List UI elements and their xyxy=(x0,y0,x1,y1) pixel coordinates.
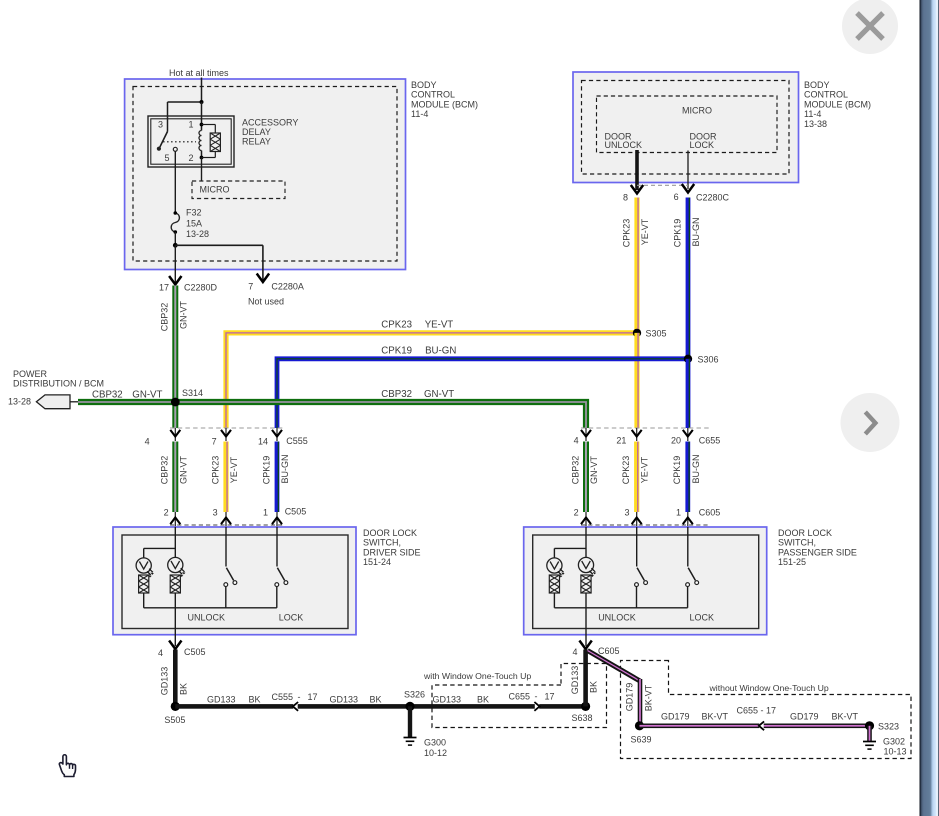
connector C555 pin 7 xyxy=(212,428,231,447)
wire S323 to ground xyxy=(867,726,872,741)
svg-text:CONTROL: CONTROL xyxy=(804,90,848,100)
svg-text:C605: C605 xyxy=(598,646,620,656)
resistor lamp 2 xyxy=(170,575,180,646)
svg-text:21: 21 xyxy=(616,436,626,446)
svg-text:BK: BK xyxy=(589,681,599,693)
node S323 xyxy=(865,721,899,731)
next button xyxy=(841,393,900,452)
wire to C2280D exit xyxy=(174,245,176,283)
svg-text:SWITCH,: SWITCH, xyxy=(778,538,816,548)
svg-text:2: 2 xyxy=(188,153,193,163)
connector C605 dashed line xyxy=(581,524,710,526)
lamp indicator 2 xyxy=(168,527,186,577)
svg-text:17: 17 xyxy=(159,283,169,293)
svg-text:UNLOCK: UNLOCK xyxy=(598,613,636,623)
svg-text:S314: S314 xyxy=(182,388,203,398)
node S639 xyxy=(631,721,652,744)
svg-text:3: 3 xyxy=(624,508,629,518)
label GD133 BK segment 3 xyxy=(433,695,490,705)
connector C2280A pin 7 xyxy=(248,274,304,292)
svg-text:10-12: 10-12 xyxy=(424,748,447,758)
label CPK19 BU-GN horizontal xyxy=(381,345,456,356)
svg-text:CPK19: CPK19 xyxy=(261,456,271,485)
svg-text:1: 1 xyxy=(188,120,193,130)
svg-text:13-28: 13-28 xyxy=(186,229,209,239)
wire CBP32 GN-VT passenger mid xyxy=(583,442,589,513)
BCM2 dashed border xyxy=(582,81,790,175)
svg-text:CBP32: CBP32 xyxy=(381,389,412,400)
svg-text:4: 4 xyxy=(574,436,579,446)
svg-text:4: 4 xyxy=(145,437,150,447)
connector C555 dashed line xyxy=(170,427,283,429)
connector C655 - 17 inline black xyxy=(509,691,555,711)
svg-text:YE-VT: YE-VT xyxy=(640,456,650,483)
svg-text:G300: G300 xyxy=(424,738,446,748)
label Hot at all times xyxy=(169,68,229,78)
wire GD133 BK driver down xyxy=(173,650,178,707)
resistor lamp 2 xyxy=(581,575,591,646)
wire CBP32 GN-VT vertical driver from C2280D xyxy=(172,286,178,429)
svg-text:151-25: 151-25 xyxy=(778,557,806,567)
label CPK23 YE-VT driver mid xyxy=(210,456,239,485)
door lock switch module box xyxy=(113,527,356,635)
connector C2280C dashed line xyxy=(637,184,688,186)
svg-text:11-4: 11-4 xyxy=(804,109,821,119)
svg-text:S639: S639 xyxy=(631,735,652,745)
svg-text:LOCK: LOCK xyxy=(279,613,304,623)
wire CPK23 YE-VT passenger mid xyxy=(634,442,639,513)
svg-text:GD133: GD133 xyxy=(570,666,580,695)
connector C605 pin 4 exit xyxy=(572,641,619,658)
wire CPK23 YE-VT from BCM to S305 xyxy=(634,198,639,332)
relay coil xyxy=(199,102,203,159)
label 13-28 xyxy=(8,397,31,407)
lamp indicator 2 xyxy=(578,527,596,577)
svg-text:BK-VT: BK-VT xyxy=(702,712,729,722)
svg-text:BK: BK xyxy=(370,695,382,705)
label C505 xyxy=(285,507,307,517)
node S306 xyxy=(684,354,719,364)
svg-text:MICRO: MICRO xyxy=(200,185,230,195)
connector C655 - 17 inline violet xyxy=(737,706,777,731)
svg-text:GN-VT: GN-VT xyxy=(178,456,188,485)
svg-text:LOCK: LOCK xyxy=(690,140,715,150)
relay switch contact pin 3-5 xyxy=(157,132,196,152)
BCM2 micro dashed box xyxy=(597,96,778,153)
label CBP32 GN-VT driver mid xyxy=(160,456,189,485)
connector C555 - 17 inline xyxy=(272,692,318,711)
svg-text:C605: C605 xyxy=(699,508,721,518)
svg-text:C555: C555 xyxy=(286,436,308,446)
svg-text:CPK23: CPK23 xyxy=(381,319,412,330)
svg-text:CBP32: CBP32 xyxy=(92,389,123,400)
svg-text:with Window One-Touch Up: with Window One-Touch Up xyxy=(423,671,531,681)
scrollbar xyxy=(920,0,939,816)
label door lock switch title xyxy=(363,528,421,567)
svg-text:BK: BK xyxy=(249,695,261,705)
svg-text:GN-VT: GN-VT xyxy=(178,301,188,330)
wire door lock output xyxy=(687,151,689,190)
svg-text:POWER: POWER xyxy=(13,369,48,379)
lamp indicator 1 xyxy=(547,548,586,577)
svg-text:6: 6 xyxy=(674,192,679,202)
close button xyxy=(842,0,898,54)
svg-text:DRIVER SIDE: DRIVER SIDE xyxy=(363,547,421,557)
wire CPK19 BU-GN S306 down xyxy=(686,359,691,428)
connector C505 pin 1 xyxy=(263,508,282,527)
connector C2280D pin 17 xyxy=(159,276,218,293)
connector C605 pin 3 xyxy=(624,508,641,528)
switch common rail xyxy=(144,607,277,609)
svg-text:4: 4 xyxy=(572,647,577,657)
connector C655 pin 20 xyxy=(671,428,693,446)
connector C2280C pin 6 xyxy=(674,184,730,203)
hand cursor xyxy=(59,755,75,777)
svg-text:13-38: 13-38 xyxy=(804,119,827,129)
svg-text:BODY: BODY xyxy=(411,80,437,90)
svg-text:Hot at all times: Hot at all times xyxy=(169,68,229,78)
svg-text:BU-GN: BU-GN xyxy=(691,218,701,247)
svg-text:RELAY: RELAY xyxy=(242,137,271,147)
connector C505 pin 4 exit xyxy=(158,641,206,659)
svg-text:BK-VT: BK-VT xyxy=(832,712,859,722)
label CPK19 BU-GN driver mid xyxy=(261,455,290,485)
label CBP32 GN-VT left xyxy=(92,389,163,400)
svg-text:3: 3 xyxy=(213,508,218,518)
svg-text:BK-VT: BK-VT xyxy=(644,684,654,711)
svg-text:C655: C655 xyxy=(699,436,721,446)
svg-text:BU-GN: BU-GN xyxy=(425,345,456,356)
lamp indicator 1 xyxy=(136,548,175,577)
svg-text:ACCESSORY: ACCESSORY xyxy=(242,118,298,128)
wire GD133 BK passenger down xyxy=(583,650,588,707)
wire door unlock output xyxy=(635,150,639,190)
label CPK23 YE-VT horizontal xyxy=(381,319,453,330)
node S305 xyxy=(633,329,667,339)
unlock switch xyxy=(635,527,648,608)
connector C2280C pin 8 xyxy=(623,185,643,203)
BCM module box (driver) xyxy=(125,79,406,270)
label ACCESSORY DELAY RELAY xyxy=(242,118,298,147)
door lock switch inner border xyxy=(122,535,348,629)
svg-text:GD133: GD133 xyxy=(330,695,359,705)
svg-text:CBP32: CBP32 xyxy=(160,303,170,332)
svg-text:SWITCH,: SWITCH, xyxy=(363,538,401,548)
fuse F32 xyxy=(171,211,179,234)
svg-text:15A: 15A xyxy=(186,219,202,229)
wire CBP32 GN-VT driver mid xyxy=(172,442,178,513)
wire branch to C2280A xyxy=(175,245,263,280)
svg-text:DOOR LOCK: DOOR LOCK xyxy=(778,528,832,538)
label GD179 BK-VT segment 1 xyxy=(661,712,729,722)
label UNLOCK xyxy=(188,613,226,623)
svg-text:GN-VT: GN-VT xyxy=(589,456,599,485)
svg-text:1: 1 xyxy=(676,508,681,518)
svg-text:S505: S505 xyxy=(164,715,185,725)
label GD133 BK segment 2 xyxy=(330,695,382,705)
svg-text:C505: C505 xyxy=(285,507,307,517)
svg-text:CPK19: CPK19 xyxy=(381,345,412,356)
svg-text:GD179: GD179 xyxy=(661,712,690,722)
lock switch xyxy=(275,527,288,608)
svg-text:YE-VT: YE-VT xyxy=(229,456,239,483)
svg-text:GN-VT: GN-VT xyxy=(132,389,162,400)
label DOOR LOCK xyxy=(690,132,718,151)
svg-text:S638: S638 xyxy=(572,713,593,723)
svg-text:4: 4 xyxy=(158,648,163,658)
connector C605 pin 2 xyxy=(574,508,591,528)
svg-text:CBP32: CBP32 xyxy=(570,456,580,485)
svg-text:without Window One-Touch Up: without Window One-Touch Up xyxy=(709,683,829,693)
svg-text:5: 5 xyxy=(164,153,169,163)
svg-text:151-24: 151-24 xyxy=(363,557,391,567)
power distribution flag symbol xyxy=(36,395,78,409)
node S326 xyxy=(404,690,425,712)
svg-text:10-13: 10-13 xyxy=(884,747,907,757)
node S638 xyxy=(572,702,593,723)
resistor relay suppression xyxy=(202,125,221,158)
connector C505 pin 2 xyxy=(164,508,181,527)
svg-text:BK: BK xyxy=(477,695,489,705)
BCM dashed border xyxy=(133,87,397,262)
label C605 xyxy=(699,508,721,518)
wire CBP32 GN-VT horizontal xyxy=(78,402,586,428)
wire GD179 BK-VT diagonal xyxy=(588,651,643,725)
wire CPK19 BU-GN passenger mid xyxy=(685,442,690,513)
wire pin 5 to fuse xyxy=(174,151,176,213)
svg-text:MICRO: MICRO xyxy=(682,106,712,116)
wire CPK23 YE-VT horizontal xyxy=(226,333,637,428)
BCM module box (passenger) xyxy=(573,72,799,183)
svg-text:C655 - 17: C655 - 17 xyxy=(737,706,777,716)
svg-text:PASSENGER SIDE: PASSENGER SIDE xyxy=(778,547,857,557)
lock switch xyxy=(686,527,699,608)
connector C605 pin 1 xyxy=(676,508,693,528)
connector C655 pin 4 xyxy=(574,428,591,446)
label POWER DISTRIBUTION / BCM xyxy=(13,369,104,389)
svg-text:7: 7 xyxy=(248,282,253,292)
wire GD179 BK-VT horizontal xyxy=(640,724,870,729)
svg-text:BK: BK xyxy=(178,683,188,695)
label with Window One-Touch Up xyxy=(423,671,531,681)
connector C555 pin 14 xyxy=(258,428,282,447)
label CPK19 BU-GN passenger mid xyxy=(672,455,701,485)
resistor lamp 1 xyxy=(139,575,149,608)
label CBP32 GN-VT right xyxy=(381,389,454,400)
door lock switch inner border xyxy=(533,535,759,629)
svg-text:LOCK: LOCK xyxy=(690,613,715,623)
label BODY CONTROL MODULE (BCM) 11-4 xyxy=(411,80,478,119)
wire CPK19 BU-GN from BCM to S306 xyxy=(686,198,691,359)
svg-text:GD133: GD133 xyxy=(433,695,462,705)
label DOOR UNLOCK xyxy=(605,132,643,151)
label BODY CONTROL MODULE (BCM) 11-4 13-38 xyxy=(804,80,871,129)
svg-text:C2280A: C2280A xyxy=(271,282,304,292)
svg-text:GD133: GD133 xyxy=(207,695,236,705)
svg-text:CPK19: CPK19 xyxy=(672,219,682,248)
node S505 xyxy=(164,702,185,725)
wire hot feed xyxy=(168,78,202,132)
label C655 xyxy=(699,436,721,446)
svg-text:C505: C505 xyxy=(184,647,206,657)
svg-text:CBP32: CBP32 xyxy=(160,456,170,485)
svg-text:YE-VT: YE-VT xyxy=(425,319,454,330)
svg-text:CPK23: CPK23 xyxy=(210,456,220,485)
connector C555 pin 4 xyxy=(145,428,181,447)
wire pin 2 to micro xyxy=(201,158,203,182)
label F32 15A 13-28 xyxy=(186,208,209,240)
unlock switch xyxy=(224,527,237,608)
svg-text:DOOR LOCK: DOOR LOCK xyxy=(363,528,417,538)
svg-text:CPK19: CPK19 xyxy=(672,456,682,485)
label UNLOCK xyxy=(598,613,636,623)
svg-text:1: 1 xyxy=(263,508,268,518)
svg-text:C655 - 17: C655 - 17 xyxy=(509,691,555,701)
svg-text:DISTRIBUTION / BCM: DISTRIBUTION / BCM xyxy=(13,379,104,389)
svg-text:Not used: Not used xyxy=(248,297,284,307)
svg-text:S306: S306 xyxy=(698,354,719,364)
label CBP32 GN-VT passenger mid xyxy=(570,456,599,485)
wire CPK23 YE-VT driver mid xyxy=(223,442,228,513)
svg-text:CPK23: CPK23 xyxy=(621,456,631,485)
node hot junction xyxy=(200,100,204,104)
svg-text:C2280C: C2280C xyxy=(696,193,730,203)
svg-text:14: 14 xyxy=(258,437,268,447)
svg-text:CONTROL: CONTROL xyxy=(411,90,455,100)
wire S326 to ground xyxy=(408,706,412,737)
ground G300 xyxy=(404,738,448,758)
svg-text:2: 2 xyxy=(574,508,579,518)
label GD133 BK segment 1 xyxy=(207,695,261,705)
dashed box without Window One-Touch Up xyxy=(621,661,912,759)
svg-text:3: 3 xyxy=(158,120,163,130)
svg-text:C2280D: C2280D xyxy=(184,283,218,293)
resistor lamp 1 xyxy=(549,575,559,608)
connector C505 dashed line xyxy=(170,524,283,526)
svg-text:MODULE (BCM): MODULE (BCM) xyxy=(804,99,871,109)
label GD179 BK-VT segment 2 xyxy=(790,712,859,722)
svg-text:S326: S326 xyxy=(404,690,425,700)
svg-text:UNLOCK: UNLOCK xyxy=(188,613,226,623)
svg-text:YE-VT: YE-VT xyxy=(640,218,650,245)
dashed box with Window One-Touch Up xyxy=(432,664,607,728)
wire CPK23 YE-VT S305 down xyxy=(634,333,639,428)
label CPK23 YE-VT passenger mid xyxy=(621,456,650,485)
label C555 xyxy=(286,436,308,446)
svg-text:13-28: 13-28 xyxy=(8,397,31,407)
svg-text:2: 2 xyxy=(164,508,169,518)
label CPK23 YE-VT vertical top xyxy=(621,218,650,247)
svg-text:C555 - 17: C555 - 17 xyxy=(272,692,318,702)
svg-text:F32: F32 xyxy=(186,208,202,218)
svg-text:MODULE (BCM): MODULE (BCM) xyxy=(411,99,478,109)
svg-text:20: 20 xyxy=(671,436,681,446)
label CPK19 BU-GN vertical top xyxy=(672,218,701,248)
svg-text:GN-VT: GN-VT xyxy=(424,389,454,400)
svg-text:BU-GN: BU-GN xyxy=(691,455,701,484)
label LOCK xyxy=(279,613,304,623)
connector C655 dashed line xyxy=(581,427,710,429)
svg-text:GD133: GD133 xyxy=(160,667,170,696)
wire CPK19 BU-GN driver mid xyxy=(275,442,280,513)
label Not used xyxy=(248,297,284,307)
svg-text:CPK23: CPK23 xyxy=(621,219,631,248)
ground G302 xyxy=(863,737,907,757)
label LOCK xyxy=(690,613,715,623)
svg-text:S305: S305 xyxy=(646,329,667,339)
label CBP32 GN-VT vertical driver top xyxy=(160,301,189,332)
wire CPK19 BU-GN horizontal xyxy=(277,359,688,428)
connector C655 pin 21 xyxy=(616,428,641,446)
node fuse output junction xyxy=(173,243,178,248)
label GD133 BK passenger vertical xyxy=(570,666,599,695)
label GD179 BK-VT vertical xyxy=(624,683,653,712)
micro box BCM1 xyxy=(192,181,285,199)
wire fuse to junction xyxy=(174,232,176,245)
door lock switch module box xyxy=(524,527,767,635)
relay accessory delay relay xyxy=(148,116,234,167)
svg-text:BU-GN: BU-GN xyxy=(280,455,290,484)
label GD133 BK driver vertical xyxy=(160,667,189,696)
svg-text:11-4: 11-4 xyxy=(411,109,428,119)
wire GD133 BK horizontal left xyxy=(175,704,585,709)
label without Window One-Touch Up xyxy=(709,683,829,693)
svg-text:DELAY: DELAY xyxy=(242,127,271,137)
svg-text:GD179: GD179 xyxy=(624,683,634,712)
svg-text:G302: G302 xyxy=(883,737,905,747)
svg-text:7: 7 xyxy=(212,437,217,447)
svg-text:UNLOCK: UNLOCK xyxy=(605,140,643,150)
svg-text:8: 8 xyxy=(623,193,628,203)
label door lock switch title xyxy=(778,528,857,567)
switch common rail xyxy=(554,607,687,609)
svg-text:BODY: BODY xyxy=(804,80,830,90)
connector C505 pin 3 xyxy=(213,508,231,527)
node S314 xyxy=(171,388,203,406)
svg-text:GD179: GD179 xyxy=(790,712,819,722)
svg-text:S323: S323 xyxy=(878,722,899,732)
